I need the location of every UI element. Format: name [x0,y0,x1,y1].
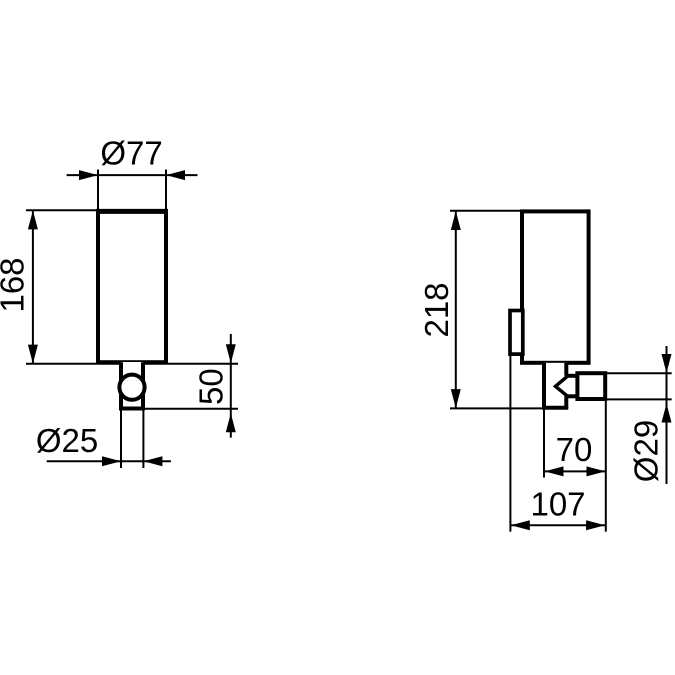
container body (side) [522,211,589,362]
svg-text:168: 168 [0,257,30,312]
dim 168 arrow top [28,210,38,229]
dim 168 line [32,210,34,364]
spout body bottom edge [542,406,568,410]
dim 107 arrow right [586,520,605,530]
svg-text:50: 50 [193,368,230,405]
dim Ø29 line [666,346,668,484]
cone V notch [556,376,568,396]
dim 218 ext line bottom [450,407,544,409]
container body (front) [98,211,166,362]
neck left side [119,362,123,408]
dim Ø77 arrow right [166,170,185,180]
dim 70 arrow left [545,466,564,476]
neck right side [141,362,145,408]
spout body left edge [542,363,546,408]
dim Ø25 ext line right [142,411,144,469]
collar bottom [566,394,577,398]
dim 107 arrow left [511,520,530,530]
ext line from nozzle to 107 [605,399,607,532]
dim Ø77 ext line right [165,170,167,210]
dim Ø29 ext line bottom [606,398,671,400]
dim 50 ext line bottom [145,408,238,410]
dim 168 arrow bottom [28,345,38,364]
svg-text:107: 107 [530,486,585,523]
svg-text:Ø29: Ø29 [627,420,664,482]
dim 50 arrow bottom [226,413,236,432]
dim 50 line [230,334,232,438]
wall mount plate [510,311,523,355]
ball joint [119,375,144,400]
shared ext line 168 bottom / 50 top [26,363,238,365]
svg-text:70: 70 [556,431,593,468]
dim 70 arrow right [587,466,606,476]
container top rim (front) [96,209,168,214]
dim 50 arrow top [226,344,236,363]
dim Ø77 arrow left [79,170,98,180]
dim Ø29 arrow bottom [662,404,672,423]
ext line from wall plate to 107 [509,356,511,532]
svg-text:Ø25: Ø25 [36,422,98,459]
dim 218 ext line top [450,210,521,212]
dim 107 line [510,524,605,526]
ext line from spout to 70 [543,409,545,478]
dim Ø29 ext line top [606,372,671,374]
dim Ø25 arrow right [143,456,162,466]
dim 218 line [455,211,457,409]
spout body right edge upper [564,363,568,376]
neck fill [121,362,143,409]
dim Ø25 ext line left [120,411,122,469]
dim Ø77 ext line left [97,170,99,210]
spout body right edge lower [564,396,568,408]
dim Ø77 line [67,174,198,176]
svg-text:Ø77: Ø77 [100,134,162,171]
dim 70 line [544,470,606,472]
dim 218 arrow bottom [451,389,461,408]
svg-text:218: 218 [418,282,455,337]
dim 168 ext line top [26,209,97,211]
dim Ø25 arrow left [102,456,121,466]
dim Ø25 line [47,460,171,462]
neck bottom edge [119,407,145,411]
dim 218 arrow top [451,211,461,230]
spout body fill [544,363,566,408]
dim Ø29 arrow top [662,354,672,373]
collar top [566,374,577,378]
nozzle [577,373,605,399]
